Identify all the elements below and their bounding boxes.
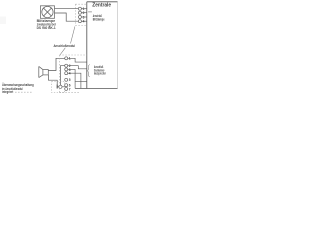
svg-text:7: 7 (69, 87, 71, 91)
svg-text:1: 1 (69, 57, 71, 61)
svg-text:4: 4 (83, 20, 85, 24)
svg-text:lautsprecher: lautsprecher (94, 72, 107, 76)
svg-text:4: 4 (69, 72, 71, 76)
svg-text:integriert: integriert (2, 90, 14, 94)
svg-text:5: 5 (69, 78, 71, 82)
svg-text:Blitzlampe: Blitzlampe (93, 18, 105, 22)
svg-text:Zentrale: Zentrale (92, 3, 111, 9)
svg-text:Anschlußmodul: Anschlußmodul (54, 44, 76, 48)
svg-text:DS 940 BK-1: DS 940 BK-1 (37, 26, 56, 30)
